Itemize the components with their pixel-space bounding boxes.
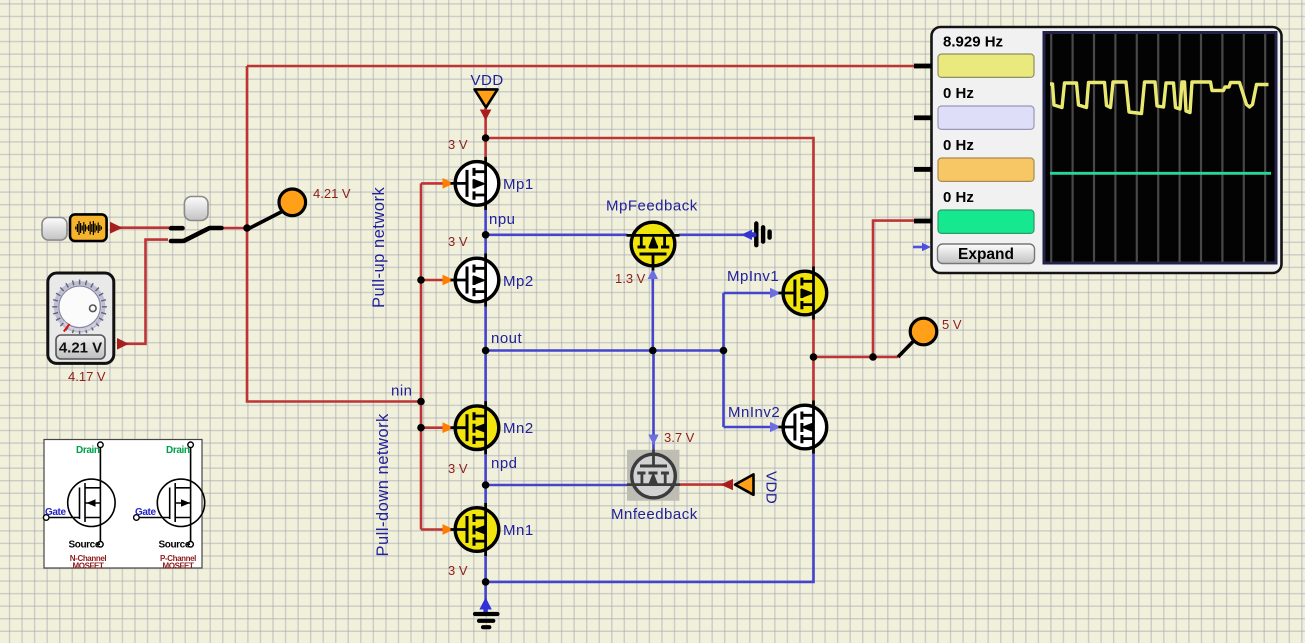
node gate Mp2 junction	[417, 276, 425, 284]
wire Mnfeedback to VDD2	[679, 483, 727, 486]
VDD symbol top	[471, 72, 504, 107]
svg-text:npu: npu	[489, 211, 516, 228]
ground right of MpFeedback	[748, 224, 770, 246]
wire Mnfeedback gate	[652, 351, 655, 451]
svg-text:VDD: VDD	[763, 471, 780, 504]
svg-text:Source: Source	[69, 539, 101, 550]
mosfet reference image	[43, 440, 204, 571]
wire out to MnInv2	[812, 357, 815, 401]
svg-text:MOSFET: MOSFET	[163, 562, 194, 571]
svg-text:3 V: 3 V	[448, 234, 468, 249]
svg-text:8.929 Hz: 8.929 Hz	[943, 34, 1003, 51]
scope expand button	[938, 244, 1035, 264]
wire source to switch	[113, 226, 169, 229]
transistor Mp1	[451, 157, 499, 210]
transistor Mn1	[451, 503, 499, 556]
svg-text:MpFeedback: MpFeedback	[606, 198, 698, 215]
button of switch	[184, 197, 208, 221]
wire npd to Mnfeedback	[486, 484, 628, 487]
wire Mn1 to ground	[484, 555, 487, 610]
node gate Mn2 junction	[417, 424, 425, 432]
wave source component	[70, 214, 107, 241]
svg-text:Mp1: Mp1	[503, 176, 534, 193]
wire switch to node	[221, 227, 247, 230]
svg-text:Mn2: Mn2	[503, 420, 534, 437]
scope trace yellow	[1050, 82, 1269, 114]
svg-text:3 V: 3 V	[448, 563, 468, 578]
arrow MpFeedback gate up	[648, 269, 658, 280]
scope pins	[914, 64, 932, 224]
transistor Mnfeedback (selected, gray)	[627, 450, 680, 501]
scope panel	[913, 27, 1282, 273]
wire Mn2-Mn1 npd vertical	[484, 453, 487, 503]
wire npu to MpFeedback	[486, 234, 628, 237]
wire MpInv1 to out	[814, 319, 899, 357]
scope channel bars	[938, 54, 1034, 77]
wire npu vertical	[484, 209, 487, 254]
arrow red at source output	[110, 222, 123, 234]
svg-text:0 Hz: 0 Hz	[943, 137, 974, 154]
arrow Mnfeedback gate down	[648, 435, 658, 446]
n-channel symbol drawing	[49, 448, 116, 543]
wire switch node vertical	[246, 66, 249, 228]
wire node down to nin	[247, 228, 421, 402]
arrows violet on blue wires	[648, 269, 781, 446]
arrow red pot output	[117, 338, 129, 350]
wire out up to scope	[873, 221, 915, 357]
arrow gate Mn2	[443, 422, 455, 433]
wire MpFeedback to ground	[679, 234, 746, 237]
svg-text:3 V: 3 V	[448, 461, 468, 476]
node VDD rail junction	[482, 134, 490, 142]
wire gate Mp1	[421, 182, 447, 185]
svg-text:Expand: Expand	[958, 246, 1014, 263]
node ground rail junction	[482, 578, 490, 586]
wire gate Mp2	[421, 279, 447, 282]
potentiometer / voltage source VR1	[48, 273, 114, 363]
wire pot to switch	[125, 240, 168, 344]
svg-text:MnInv2: MnInv2	[728, 404, 780, 421]
svg-text:VDD: VDD	[471, 72, 504, 89]
arrow gate Mp1	[443, 178, 455, 189]
svg-text:0 Hz: 0 Hz	[943, 189, 974, 206]
wire nout	[486, 349, 724, 352]
wire VDD drop	[484, 108, 487, 157]
arrow red VDD down	[480, 110, 492, 121]
svg-text:Pull-down network: Pull-down network	[374, 413, 392, 557]
wire gate MnInv2	[724, 426, 772, 429]
arrow red to VDD2	[721, 479, 734, 490]
svg-text:npd: npd	[491, 455, 518, 472]
ground bottom	[475, 614, 498, 627]
svg-text:Drain: Drain	[166, 445, 190, 456]
wire top rail	[247, 65, 915, 68]
svg-text:5 V: 5 V	[942, 317, 962, 332]
node output junction	[869, 353, 877, 361]
probe P1 (4.21 V)	[248, 189, 306, 229]
transistor MnInv2	[778, 401, 826, 454]
node inverter gates junction	[720, 347, 728, 355]
reference image labels	[45, 445, 196, 571]
svg-text:3 V: 3 V	[448, 137, 468, 152]
svg-text:Mnfeedback: Mnfeedback	[611, 506, 698, 523]
svg-text:nin: nin	[391, 383, 413, 400]
svg-text:Mn1: Mn1	[503, 522, 534, 539]
svg-text:Source: Source	[159, 539, 191, 550]
wire ground rail bottom	[486, 453, 814, 582]
arrow ground bottom (dark blue)	[480, 599, 491, 614]
svg-text:MOSFET: MOSFET	[73, 562, 104, 571]
svg-text:Gate: Gate	[45, 507, 66, 518]
WIRES-BLUE	[486, 209, 814, 610]
svg-text:Mp2: Mp2	[503, 273, 534, 290]
arrow gate Mn1	[443, 524, 455, 535]
wire inverter gates vertical	[722, 293, 725, 427]
svg-text:1.3 V: 1.3 V	[615, 271, 646, 286]
svg-text:0 Hz: 0 Hz	[943, 85, 974, 102]
transistor MpFeedback	[627, 222, 680, 270]
svg-text:Drain: Drain	[76, 445, 100, 456]
arrow gate MpInv1	[770, 288, 781, 298]
wire gate bus vertical	[420, 183, 423, 529]
svg-text:nout: nout	[491, 330, 523, 347]
wire Mp2-Mn2	[484, 306, 487, 402]
svg-text:MpInv1: MpInv1	[727, 268, 779, 285]
node nout junction	[482, 347, 490, 355]
transistor Mp2	[451, 254, 499, 307]
probe P2 (5 V)	[898, 318, 937, 357]
svg-text:4.21 V: 4.21 V	[313, 186, 351, 201]
node npu junction	[482, 231, 490, 239]
button left (clock btn)	[42, 218, 67, 241]
node npd junction	[482, 481, 490, 489]
arrow gate Mp2	[443, 275, 455, 286]
node nin junction	[417, 398, 425, 406]
switch SW1 (SPDT)	[171, 228, 222, 241]
WIRES-RED	[113, 66, 915, 530]
arrows orange at NMOS/PMOS gates	[443, 178, 455, 535]
svg-text:3.7 V: 3.7 V	[664, 430, 695, 445]
scope trace green	[1050, 172, 1271, 175]
svg-text:4.17 V: 4.17 V	[68, 369, 106, 384]
node switch-probe junction	[243, 224, 251, 232]
svg-text:4.21 V: 4.21 V	[59, 340, 102, 357]
wire gate Mn2	[421, 426, 447, 429]
wire gate Mn1	[421, 528, 447, 531]
svg-text:Gate: Gate	[135, 507, 156, 518]
p-channel symbol drawing	[139, 448, 205, 543]
VDD symbol right (rotated)	[735, 471, 780, 504]
wire gate MpInv1	[724, 292, 772, 295]
node feedback gates junction	[649, 347, 657, 355]
svg-text:Pull-up network: Pull-up network	[370, 187, 388, 308]
wire MpFeedback gate	[651, 270, 654, 351]
node MpInv1 drain junction	[810, 353, 818, 361]
arrow ground right (dark blue)	[741, 230, 752, 240]
arrow gate MnInv2	[770, 422, 781, 432]
scope trigger pin arrow	[913, 243, 931, 252]
transistor MpInv1	[778, 267, 826, 320]
transistor Mn2	[451, 401, 499, 454]
wire vdd rail to MpInv1	[486, 138, 814, 267]
